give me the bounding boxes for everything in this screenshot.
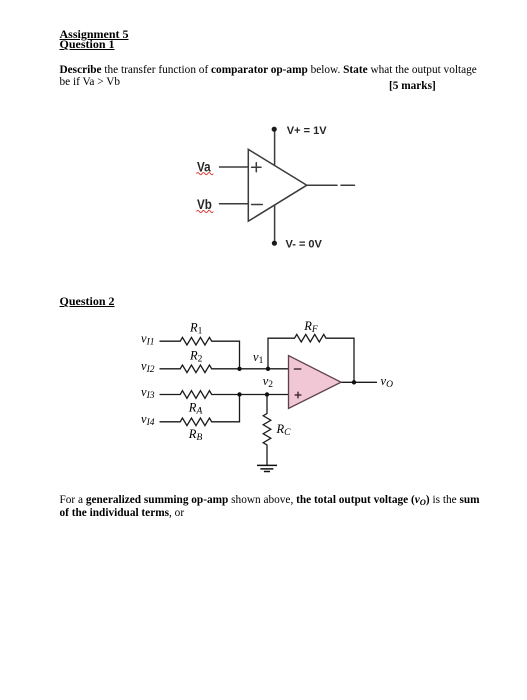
- svg-text:RB: RB: [188, 427, 203, 443]
- svg-text:V+ = 1V: V+ = 1V: [287, 125, 327, 137]
- svg-text:R1: R1: [189, 321, 203, 337]
- svg-text:V- = 0V: V- = 0V: [286, 239, 323, 251]
- svg-text:v2: v2: [263, 374, 274, 390]
- svg-text:vO: vO: [381, 374, 394, 390]
- svg-text:vI3: vI3: [141, 385, 155, 401]
- svg-text:v1: v1: [253, 350, 264, 366]
- svg-text:vI2: vI2: [141, 359, 155, 375]
- svg-text:R2: R2: [189, 349, 203, 365]
- svg-text:RC: RC: [276, 422, 292, 438]
- svg-text:vI4: vI4: [141, 412, 155, 428]
- svg-text:vI1: vI1: [141, 332, 154, 348]
- svg-text:RF: RF: [303, 319, 318, 335]
- svg-text:Vb: Vb: [197, 196, 212, 212]
- svg-text:RA: RA: [188, 401, 203, 417]
- svg-text:Va: Va: [197, 158, 211, 174]
